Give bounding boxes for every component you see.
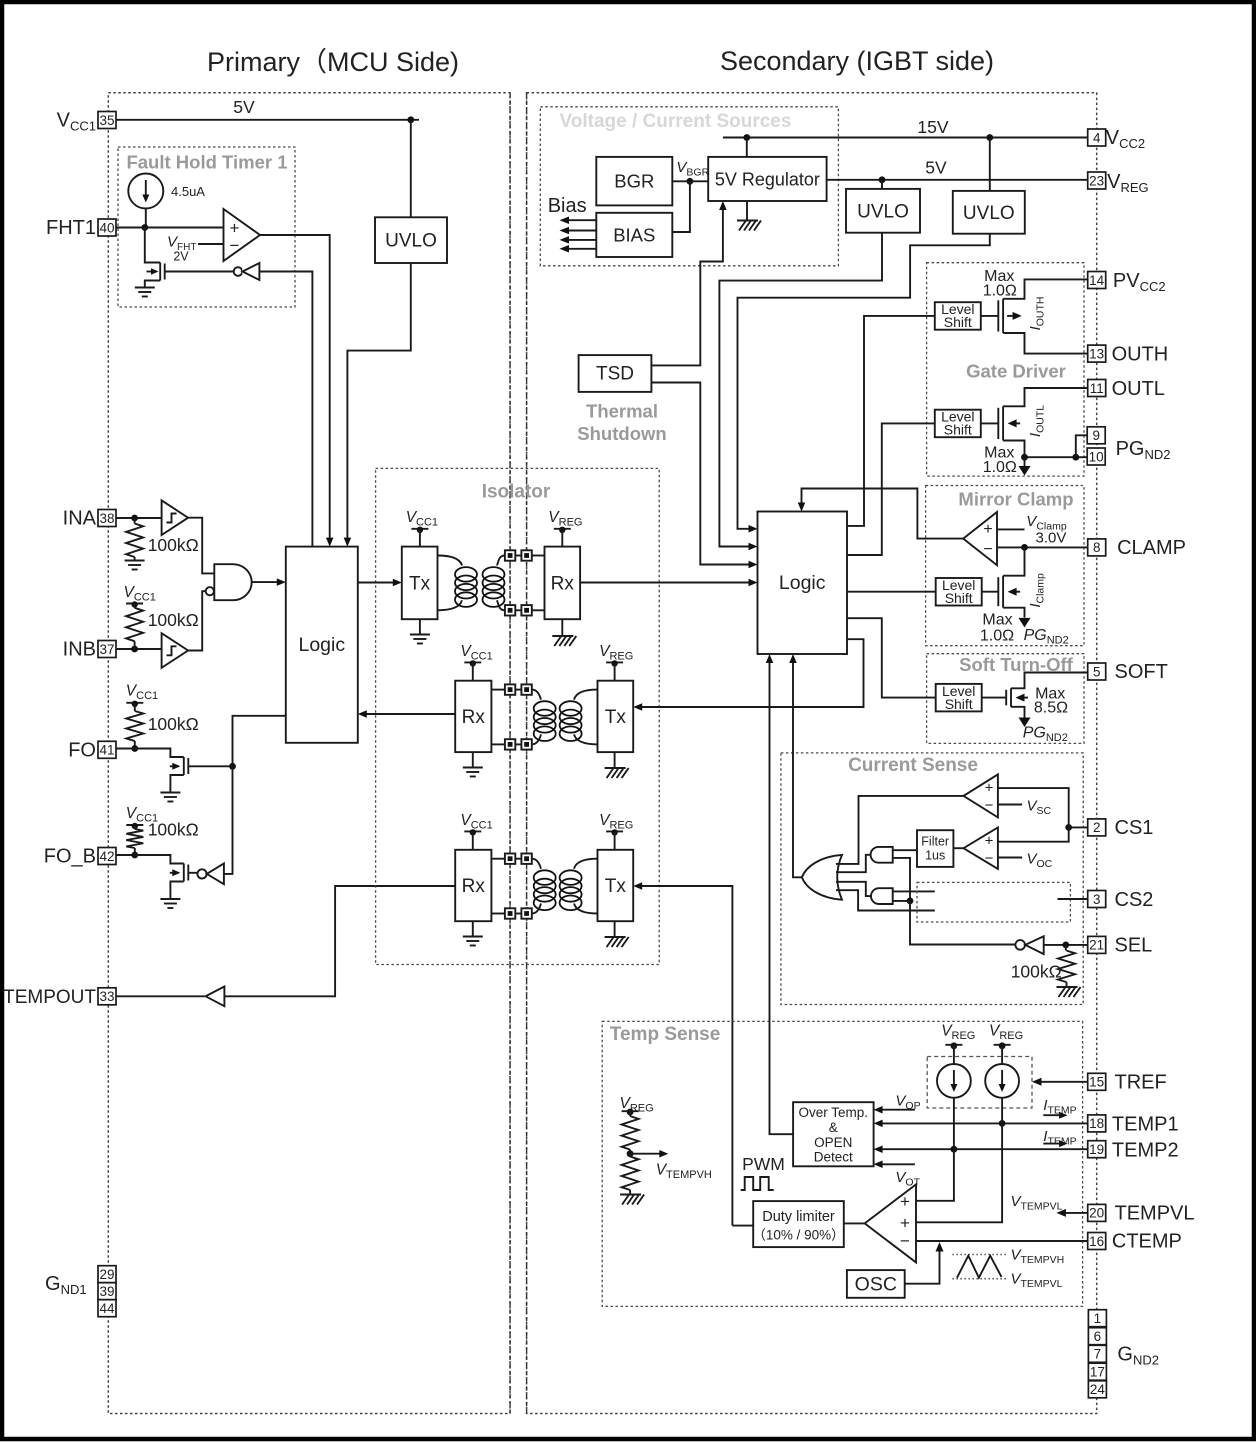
svg-text:INA: INA (63, 508, 97, 530)
pin 24 GND2 (1088, 1381, 1106, 1398)
svg-text:Temp Sense: Temp Sense (610, 1024, 721, 1045)
block OSC (847, 1270, 905, 1298)
block Current Sense dashed box (781, 753, 1083, 1005)
svg-text:UVLO: UVLO (963, 203, 1015, 224)
svg-text:100kΩ: 100kΩ (148, 610, 199, 630)
block temp current sources dashed box (927, 1057, 1032, 1109)
svg-text:Logic: Logic (298, 634, 345, 656)
block Rx1 isolator receiver (545, 547, 581, 620)
svg-text:100kΩ: 100kΩ (1011, 962, 1062, 982)
svg-text:14: 14 (1089, 273, 1105, 288)
block CS2 reserved dashed box (917, 882, 1070, 922)
wire OUTL source to PGND2 pins (1003, 435, 1088, 460)
label Thermal Shutdown (577, 401, 666, 445)
transistor soft turn-off NMOS (1006, 688, 1028, 707)
arrow ITEMP 2 direction (1043, 1140, 1067, 1147)
svg-text:TEMPOUT: TEMPOUT (3, 987, 96, 1008)
svg-text:Thermal: Thermal (586, 401, 658, 422)
svg-text:42: 42 (99, 849, 114, 864)
wire VOC comparator to filter (953, 847, 963, 849)
svg-text:OPEN: OPEN (814, 1135, 852, 1150)
svg-text:5V: 5V (925, 158, 947, 178)
wire VSC stub (998, 804, 1022, 806)
pin 41 FO (68, 740, 116, 762)
transistor OUTL NMOS (998, 406, 1020, 440)
power tap VREG Tx2 (606, 660, 623, 681)
pin 38 INA (63, 508, 116, 530)
svg-text:Filter: Filter (921, 835, 949, 849)
wire level shift to soft gate (982, 697, 1007, 699)
wire comparator minus to CLAMP pin 8 (997, 544, 1088, 551)
pin 17 GND2 (1088, 1363, 1106, 1380)
svg-text:Rx: Rx (462, 707, 486, 728)
pin 4 VCC2 (1088, 127, 1145, 151)
svg-text:Shift: Shift (944, 314, 972, 330)
svg-text:Detect: Detect (814, 1150, 853, 1165)
wire CTEMP pin to comparator minus (916, 1240, 1088, 1242)
svg-text:−: − (983, 541, 992, 558)
transformer row 2 (491, 684, 597, 749)
transformer row 3 (491, 854, 597, 919)
svg-text:38: 38 (99, 511, 114, 526)
svg-text:Max: Max (982, 612, 1012, 629)
svg-text:CTEMP: CTEMP (1112, 1231, 1182, 1253)
svg-text:CLAMP: CLAMP (1117, 537, 1186, 559)
label Max 1.0 ohm OUTL (983, 445, 1017, 477)
level shift clamp (936, 577, 982, 606)
level shift soft turn-off (936, 683, 982, 712)
block Logic secondary (758, 512, 848, 655)
svg-text:8: 8 (1093, 540, 1101, 555)
wire UVLO primary output to logic (347, 263, 410, 541)
pin 9 PGND2 (1087, 427, 1105, 444)
svg-text:（10% / 90%）: （10% / 90%） (752, 1228, 844, 1243)
wire CS2 sense stub upper (893, 890, 935, 892)
svg-text:Fault Hold Timer 1: Fault Hold Timer 1 (126, 152, 287, 173)
pin 11 OUTL (1088, 378, 1165, 400)
svg-text:TEMPVL: TEMPVL (1115, 1203, 1195, 1225)
node VTEMPVH tap (627, 1150, 669, 1158)
wire over temp output to logic (766, 654, 793, 1134)
svg-text:UVLO: UVLO (857, 202, 909, 223)
isolation barrier dashed line 2 (526, 93, 528, 1414)
wire FO_B node (116, 852, 138, 859)
svg-text:SOFT: SOFT (1115, 661, 1168, 683)
wire OR output to secondary logic (789, 654, 802, 877)
ground Rx2 (463, 752, 483, 776)
wire SEL net vertical (893, 858, 1016, 945)
svg-text:OUTL: OUTL (1112, 378, 1165, 400)
pin 33 TEMPOUT (3, 987, 116, 1008)
wire filter to AND gate A (893, 849, 917, 851)
power tap VREG current source 1 (945, 1042, 962, 1064)
power tap VCC1 Tx1 (411, 527, 428, 547)
wire 15V rail (723, 134, 1088, 191)
svg-text:1us: 1us (925, 849, 945, 863)
svg-text:OSC: OSC (855, 1274, 897, 1296)
wire current source 1 to comparator (916, 1098, 954, 1201)
transformer row 1 (438, 550, 545, 615)
svg-text:OUTH: OUTH (1112, 344, 1169, 366)
svg-text:Tx: Tx (409, 574, 431, 595)
wire SEL pin to inverter (1044, 942, 1088, 949)
svg-text:&: & (829, 1120, 838, 1135)
resistor divider upper (622, 1116, 639, 1150)
svg-text:24: 24 (1090, 1382, 1106, 1397)
pin 40 FHT1 (46, 217, 116, 239)
pin 29 GND1 (98, 1266, 116, 1283)
wire comparator output to primary logic (260, 235, 330, 541)
svg-text:16: 16 (1089, 1234, 1104, 1249)
wire mirror comparator output to logic (798, 489, 963, 539)
pin 7 GND2 (1088, 1345, 1106, 1362)
wire AND A output to OR gate (836, 855, 871, 872)
arrow ITEMP 1 direction (1043, 1112, 1067, 1119)
ground Tx2 fence (605, 752, 629, 778)
transistor clamp NMOS (998, 576, 1020, 608)
svg-text:−: − (900, 1232, 910, 1251)
svg-text:+: + (900, 1192, 910, 1211)
inverter SEL (1015, 936, 1043, 954)
svg-text:3.0V: 3.0V (1036, 530, 1067, 547)
power tap VREG divider (622, 1109, 639, 1117)
svg-text:UVLO: UVLO (385, 231, 437, 252)
ground Rx1 fence (552, 619, 576, 646)
wire FHT1 node (116, 224, 224, 231)
svg-text:Mirror Clamp: Mirror Clamp (958, 489, 1073, 510)
block Gate Driver dashed box (927, 263, 1084, 476)
wire logic to FO gates (224, 716, 286, 874)
ground divider fence (620, 1190, 644, 1205)
wire clamp drain to CLAMP net (1003, 547, 1024, 575)
svg-text:Tx: Tx (605, 876, 627, 897)
svg-text:2: 2 (1093, 820, 1101, 835)
wire VOC stub (998, 857, 1022, 859)
svg-text:21: 21 (1089, 938, 1104, 953)
ground Tx3 fence (605, 921, 629, 947)
secondary side dashed region box (527, 93, 1097, 1414)
block Isolator dashed box (376, 468, 660, 964)
svg-text:1.0Ω: 1.0Ω (983, 283, 1017, 300)
block Logic primary (286, 547, 358, 743)
schmitt buffer INA (162, 500, 189, 535)
svg-text:+: + (985, 780, 994, 797)
svg-text:15: 15 (1089, 1075, 1104, 1090)
wire duty limiter output (732, 1225, 753, 1227)
pin 15 TREF (1088, 1072, 1167, 1094)
svg-text:29: 29 (99, 1267, 114, 1282)
block TSD (579, 355, 652, 392)
pin 10 PGND2 (1087, 448, 1105, 465)
wire UVLO2 to secondary logic (738, 234, 990, 533)
buffer TEMPOUT output (116, 987, 224, 1007)
svg-text:9: 9 (1092, 428, 1100, 443)
wire logic to level shift OUTH (847, 316, 935, 526)
svg-text:Over Temp.: Over Temp. (799, 1105, 869, 1120)
wire current source 2 to comparator (916, 1098, 1002, 1223)
wire CS2 sense stub lower (836, 890, 935, 910)
comparator FHT (V_FHT 2V) (224, 209, 261, 261)
label Max 8.5 ohm soft (1034, 685, 1068, 716)
svg-text:44: 44 (99, 1301, 115, 1316)
wire level shift to OUTH gate (981, 315, 999, 317)
pin 3 CS2 (1088, 889, 1154, 911)
filter 1us box (917, 830, 953, 867)
wire VClamp to comparator plus (997, 528, 1025, 530)
svg-text:Duty limiter: Duty limiter (762, 1209, 835, 1225)
wire TEMP2 net to over temp detect (874, 1145, 1088, 1153)
svg-text:8.5Ω: 8.5Ω (1034, 700, 1068, 717)
block UVLO secondary 1 (846, 189, 920, 233)
svg-text:Secondary (IGBT side): Secondary (IGBT side) (720, 46, 994, 76)
pin 19 TEMP2 (1088, 1140, 1179, 1162)
wire comparator to duty limiter (844, 1222, 865, 1224)
svg-text:19: 19 (1089, 1142, 1104, 1157)
svg-text:Shutdown: Shutdown (577, 423, 666, 444)
svg-text:41: 41 (99, 743, 114, 758)
svg-text:Shift: Shift (945, 696, 973, 712)
block UVLO secondary 2 (953, 191, 1025, 234)
svg-text:TEMP2: TEMP2 (1112, 1140, 1179, 1162)
svg-text:5: 5 (1093, 664, 1101, 679)
wire Rx1 to secondary logic (580, 579, 757, 587)
wire clamp source to PGND2 (1003, 608, 1030, 628)
svg-text:4.5uA: 4.5uA (171, 184, 205, 199)
svg-text:TEMP1: TEMP1 (1112, 1114, 1179, 1136)
svg-text:+: + (985, 833, 994, 850)
wire logic to level shift clamp (847, 591, 936, 593)
schmitt buffer INB (162, 633, 189, 668)
pin 6 GND2 (1088, 1328, 1106, 1345)
pin 44 GND1 (98, 1300, 116, 1317)
resistor 100k INB pullup (126, 604, 143, 649)
wire INA buffer to NAND input (188, 518, 214, 574)
wire OSC to comparator (905, 1242, 944, 1284)
svg-text:Rx: Rx (551, 574, 575, 595)
svg-text:Shift: Shift (945, 590, 973, 606)
block Tx2 isolator transmitter (598, 681, 634, 752)
svg-text:1: 1 (1094, 1311, 1102, 1326)
block Temp Sense dashed box (602, 1021, 1082, 1306)
svg-text:35: 35 (99, 113, 114, 128)
svg-text:INB: INB (63, 639, 96, 661)
pin 16 CTEMP (1088, 1231, 1182, 1253)
wire logic to level shift OUTL (847, 423, 935, 555)
svg-text:7: 7 (1094, 1347, 1102, 1362)
current source 4.5uA (128, 174, 163, 228)
power tap VCC1 Rx2 (464, 660, 481, 681)
wire VOT input (874, 1161, 915, 1169)
block UVLO primary (375, 217, 447, 263)
pin 14 PVCC2 (1088, 270, 1166, 294)
pin 13 OUTH (1088, 344, 1169, 366)
pin 18 TEMP1 (1088, 1114, 1179, 1136)
wire duty limiter to Tx3 (633, 882, 732, 1225)
block Rx3 isolator receiver (455, 850, 491, 921)
OR gate mirrored output left (802, 855, 842, 900)
svg-text:Tx: Tx (605, 707, 627, 728)
svg-text:37: 37 (99, 642, 114, 657)
svg-text:100kΩ: 100kΩ (148, 820, 199, 840)
current source ITEMP 2 (985, 1064, 1019, 1098)
comparator temp sense PWM (865, 1184, 916, 1262)
level shift OUTL (935, 409, 981, 438)
wire level shift to OUTL gate (981, 422, 999, 424)
svg-text:CS1: CS1 (1115, 817, 1154, 839)
NAND gate input combiner (206, 564, 252, 600)
pin 39 GND1 (98, 1283, 116, 1300)
wire UVLO1 to secondary logic (719, 233, 882, 551)
svg-text:Bias: Bias (548, 195, 587, 217)
power tap VREG Tx3 (606, 829, 623, 850)
transistor FO_B pulldown NMOS (135, 855, 198, 908)
svg-text:33: 33 (99, 989, 114, 1004)
wire TEMP1 net to over temp detect (874, 1120, 1088, 1128)
svg-text:+: + (983, 521, 992, 538)
block BGR (596, 157, 672, 206)
ground arrow PGND2 OUTL (1019, 457, 1031, 475)
svg-text:100kΩ: 100kΩ (148, 714, 199, 734)
svg-text:PWM: PWM (742, 1154, 785, 1174)
wire level shift to clamp gate (982, 591, 999, 593)
svg-text:13: 13 (1089, 346, 1104, 361)
svg-text:17: 17 (1090, 1365, 1105, 1380)
block Tx1 isolator transmitter (402, 547, 438, 620)
svg-text:FO_B: FO_B (44, 846, 96, 868)
wire 5V net from pin 35 to UVLO drop (116, 116, 419, 217)
PWM square wave symbol (741, 1177, 774, 1190)
power tap VREG current source 2 (994, 1042, 1011, 1064)
wire 5V rail VREG (827, 176, 1088, 188)
inverter FO_B gate driver (197, 864, 224, 885)
svg-text:BIAS: BIAS (613, 225, 655, 246)
resistor 100k FO_B pullup (126, 826, 143, 856)
current source ITEMP 1 (937, 1064, 971, 1098)
svg-text:Gate Driver: Gate Driver (966, 361, 1066, 382)
svg-text:1.0Ω: 1.0Ω (980, 628, 1014, 645)
svg-text:4: 4 (1093, 130, 1101, 145)
block Soft Turn-Off dashed box (927, 654, 1084, 744)
level shift OUTH (935, 301, 981, 330)
power tap VCC1 Rx3 (464, 829, 481, 850)
svg-text:1.0Ω: 1.0Ω (983, 459, 1017, 476)
block Duty limiter (752, 1201, 844, 1247)
svg-text:+: + (230, 219, 240, 238)
svg-text:BGR: BGR (614, 171, 654, 192)
AND gate A mirrored (871, 847, 893, 863)
bias output arrows (560, 216, 597, 252)
pin 37 INB (63, 639, 116, 661)
wire VOP input (874, 1106, 915, 1114)
svg-text:FHT1: FHT1 (46, 217, 96, 239)
power tap VCC1 INB (126, 603, 143, 605)
svg-text:−: − (985, 797, 994, 814)
ground Tx1 (410, 619, 430, 643)
wire BGR to 5V regulator and BIAS (672, 178, 708, 232)
pin 1 GND2 (1088, 1310, 1106, 1327)
svg-text:−: − (230, 236, 240, 255)
svg-text:TSD: TSD (596, 364, 634, 385)
pin 42 FO_B (44, 846, 116, 868)
svg-text:3: 3 (1093, 892, 1101, 907)
ground INA resistor (125, 560, 145, 562)
svg-text:39: 39 (99, 1284, 114, 1299)
svg-text:Rx: Rx (462, 876, 486, 897)
transistor OUTH NMOS (998, 299, 1021, 333)
wire primary logic to Tx1 (358, 579, 402, 587)
power tap VREG Rx1 (554, 527, 571, 547)
wire TSD to 5V regulator (651, 201, 726, 365)
wire logic to level shift soft (847, 618, 936, 697)
inverter FHT gate driver (234, 263, 260, 280)
primary side dashed region box (108, 93, 510, 1414)
svg-text:Current Sense: Current Sense (848, 755, 978, 776)
isolation barrier dashed line 1 (509, 93, 511, 1414)
resistor divider lower (622, 1157, 639, 1191)
wire INB buffer to NAND bubble (188, 591, 205, 650)
svg-text:2V: 2V (173, 250, 189, 264)
resistor 100k FO pullup (126, 703, 143, 748)
svg-text:6: 6 (1094, 1329, 1102, 1344)
block Over Temp OPEN Detect (793, 1102, 874, 1166)
comparator VOC (964, 827, 998, 869)
wire CS2 pin stub (1058, 898, 1088, 900)
wire NAND output to primary logic (252, 578, 286, 586)
svg-text:Logic: Logic (779, 572, 826, 594)
triangle wave symbol (952, 1255, 1006, 1279)
svg-text:5V Regulator: 5V Regulator (715, 170, 820, 190)
svg-text:15V: 15V (917, 117, 948, 137)
wire AND B output to OR gate (836, 882, 871, 896)
resistor 100k SEL (1058, 945, 1075, 986)
block 5V Regulator (708, 157, 826, 201)
svg-text:20: 20 (1089, 1206, 1104, 1221)
label Max 1.0 ohm clamp (980, 612, 1014, 645)
wire OUTH source to OUTH pin 13 (1003, 333, 1088, 354)
power tap VCC1 FO (126, 702, 143, 704)
wire TEMPVL pin arrow (1056, 1209, 1087, 1217)
block Fault Hold Timer 1 dashed box (118, 147, 295, 307)
block Mirror Clamp dashed box (926, 486, 1084, 646)
pin 20 TEMPVL (1088, 1203, 1195, 1225)
label VClamp 3.0V (1026, 513, 1067, 547)
resistor 100k INA pulldown (126, 518, 143, 560)
wire INB to schmitt buffer (116, 646, 162, 653)
svg-text:+: + (900, 1214, 910, 1233)
svg-text:Shift: Shift (944, 422, 972, 438)
pin 23 VREG (1088, 171, 1149, 195)
AND gate B mirrored (871, 888, 893, 904)
svg-text:18: 18 (1089, 1116, 1104, 1131)
block Voltage Current Sources dashed box (540, 107, 838, 266)
wire Rx3 to TEMPOUT buffer (224, 886, 455, 996)
svg-text:FO: FO (68, 740, 96, 762)
svg-text:Primary（MCU Side): Primary（MCU Side) (207, 47, 459, 77)
pin 2 CS1 (1088, 817, 1154, 839)
pin 8 CLAMP (1088, 537, 1186, 559)
comparator mirror clamp (963, 512, 997, 565)
block Rx2 isolator receiver (455, 681, 491, 752)
wire secondary logic to Tx2 (633, 639, 863, 711)
wire soft drain to SOFT pin 5 (1011, 673, 1088, 689)
block Tx3 isolator transmitter (598, 850, 634, 921)
wire TREF pin to current sources (1032, 1078, 1088, 1086)
ground SEL fence (1057, 986, 1078, 988)
pin 21 SEL (1088, 935, 1153, 957)
wire INA to schmitt buffer (116, 515, 162, 522)
block BIAS (596, 213, 672, 257)
svg-text:10: 10 (1089, 449, 1104, 464)
